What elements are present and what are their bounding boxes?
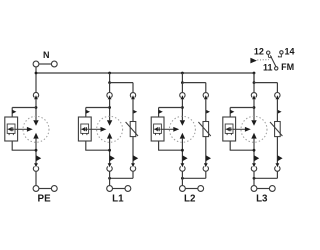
wire L3 plug to spark gap: [253, 99, 255, 120]
junction PE monitor tap: [35, 106, 38, 109]
svg-text:11: 11: [263, 63, 273, 73]
wire L3 varistor branch down: [276, 171, 278, 178]
defeat indicator flag on monitor lead PE: [12, 110, 16, 114]
disconnector symbol inside L2: [154, 127, 161, 135]
wire L1 varistor branch plug to varistor: [132, 99, 134, 122]
plug-in contact (socket+pin) top of L2 arrester branch: [180, 93, 185, 98]
spark gap L2 lower electrode arrow: [180, 133, 185, 139]
wire monitor box L2 bottom to branch: [158, 149, 182, 151]
actuation arrow from box PE to spark gap: [15, 128, 27, 130]
wire arrester branch L1 down to plug: [109, 83, 111, 93]
indicator flag on L1 varistor branch: [133, 110, 137, 114]
terminal PE right: [51, 186, 57, 192]
plug-in contact (pin+socket) bottom of PE arrester branch: [34, 163, 38, 167]
wire monitor box PE bottom to branch: [12, 149, 36, 151]
defeat indicator flag on monitor lead L1: [86, 110, 90, 114]
monitoring element inner box L2: [154, 124, 162, 133]
defeat indicator flag on monitor lead L2: [159, 110, 163, 114]
FM contact mechanical-link flag: [250, 58, 257, 64]
wire N terminal bridge: [39, 63, 52, 65]
FM contact 14 fixed-contact hook: [278, 54, 281, 57]
junction bus / L3 module: [253, 72, 256, 75]
plug-in contact (pin+socket) bottom of L1 arrester branch: [108, 163, 112, 167]
wire PE plug to terminal: [35, 171, 37, 185]
wire L1 plug to spark gap: [109, 99, 111, 120]
wire monitor box L1 bottom lead: [85, 141, 87, 150]
wire L1 to monitor box top: [86, 107, 110, 109]
wire L3 terminal bridge: [257, 188, 270, 190]
varistor L1 diagonal stroke: [126, 122, 138, 136]
FM mechanical coupling dotted line: [257, 59, 269, 61]
wire bus to L2 split: [181, 73, 183, 83]
junction L3 monitor tap: [253, 106, 256, 109]
junction L1 monitor bottom tap: [108, 149, 111, 152]
wire L2 join to terminal: [181, 171, 183, 185]
plug-in contact (pin+socket) bottom of L1 varistor branch: [131, 163, 135, 167]
spark gap L3 lower electrode arrow: [251, 133, 256, 139]
terminal L1 right: [125, 186, 131, 192]
junction bus / L1 module: [108, 72, 111, 75]
terminal N right: [51, 61, 57, 67]
FM contact 12 fixed-contact hook: [268, 55, 271, 58]
wire varistor branch L2 down to plug: [205, 83, 207, 93]
plug-in contact (pin+socket) bottom of L3 arrester branch: [252, 163, 256, 167]
terminal L1 left: [107, 186, 113, 192]
terminal L3 right: [269, 186, 275, 192]
wire L2 terminal bridge: [185, 188, 198, 190]
wire monitor box L1 top lead: [85, 108, 87, 118]
wire L2 plug to spark gap: [181, 99, 183, 120]
wire L3 varistor to bottom plug: [276, 137, 278, 164]
wire L2 spark gap to bottom plug: [181, 139, 183, 164]
wire L3 varistor branch plug to varistor: [276, 99, 278, 122]
actuation arrow from box L2 to spark gap: [161, 128, 173, 130]
wire monitor box L3 bottom lead: [229, 141, 231, 150]
indicator flag bottom of L1 arrester branch: [110, 155, 115, 161]
monitoring element inner box PE: [7, 124, 15, 133]
defeat indicator flag on monitor lead L3: [230, 110, 234, 114]
monitoring element inner box L3: [225, 124, 233, 133]
spark gap L1 lower electrode arrow: [107, 133, 112, 139]
wire L1 varistor branch down: [132, 171, 134, 178]
varistor L3 body: [275, 122, 281, 137]
svg-text:14: 14: [284, 46, 294, 56]
svg-text:FM: FM: [281, 62, 294, 72]
actuation arrow from box L3 to spark gap: [233, 128, 245, 130]
junction PE monitor bottom tap: [35, 149, 38, 152]
wire L2 varistor branch plug to varistor: [205, 99, 207, 122]
wire L1 terminal bridge: [113, 188, 126, 190]
svg-text:12: 12: [254, 46, 264, 56]
plug-in contact (pin+socket) bottom of L2 varistor branch: [204, 163, 208, 167]
svg-text:PE: PE: [38, 193, 52, 204]
wire PE plug to spark gap: [35, 99, 37, 120]
terminal L2 right: [198, 186, 204, 192]
spark gap L3 upper electrode arrow: [251, 120, 256, 126]
wire L3 join to terminal: [253, 171, 255, 185]
wire L2 varistor branch join: [182, 177, 205, 179]
spark gap PE upper electrode arrow: [33, 120, 38, 126]
indicator flag bottom of PE arrester branch: [36, 155, 41, 161]
wire varistor branch L1 down to plug: [132, 83, 134, 93]
wire monitor box L3 bottom to branch: [230, 149, 254, 151]
wire L3 spark gap to bottom plug: [253, 139, 255, 164]
disconnector symbol inside L3: [226, 127, 233, 135]
varistor L3 diagonal stroke: [270, 122, 282, 136]
wire monitor box L2 top lead: [158, 108, 160, 118]
terminal L3 left: [251, 186, 257, 192]
plug-in contact (socket+pin) top of PE arrester branch: [33, 92, 38, 97]
wire PE terminal bridge: [39, 188, 52, 190]
indicator flag bottom of L2 varistor branch: [206, 155, 211, 161]
wire monitor box L1 bottom to branch: [85, 149, 109, 151]
plug-in contact (socket+pin) top of L2 varistor branch: [203, 93, 208, 98]
junction bus / L2 module: [181, 72, 184, 75]
svg-text:N: N: [43, 50, 50, 60]
wire varistor branch L3 down to plug: [276, 83, 278, 93]
indicator flag bottom of L3 varistor branch: [277, 155, 282, 161]
wire N terminal down to module 1 plug: [35, 67, 37, 93]
FM contact 14 terminal circle: [280, 51, 283, 54]
disconnect/monitoring device box L3: [223, 117, 236, 141]
wire bus to L3 split: [253, 73, 255, 83]
indicator flag on L2 varistor branch: [206, 110, 210, 114]
svg-text:L3: L3: [256, 193, 268, 204]
spark gap PE (dashed circle): [23, 116, 49, 142]
wire L1 varistor to bottom plug: [132, 137, 134, 164]
plug-in contact (socket+pin) top of L3 arrester branch: [251, 93, 256, 98]
junction L2 monitor tap: [181, 106, 184, 109]
bus corner wire down to L3 module: [253, 73, 255, 83]
svg-text:L2: L2: [184, 193, 196, 204]
wire L3 varistor branch join: [254, 177, 277, 179]
wire bus to L1 split: [109, 73, 111, 83]
wire L1 spark gap to bottom plug: [109, 139, 111, 164]
FM contact 11 terminal circle: [275, 67, 278, 70]
spark gap L1 (dashed circle): [97, 116, 123, 142]
disconnect/monitoring device box L2: [151, 117, 164, 141]
wire L2 to monitor box top: [159, 107, 183, 109]
indicator flag bottom of L3 arrester branch: [254, 155, 259, 161]
wire monitor box PE bottom lead: [11, 141, 13, 150]
spark gap PE lower electrode arrow: [33, 133, 38, 139]
disconnector symbol inside L1: [81, 127, 88, 135]
spark gap L2 upper electrode arrow: [180, 120, 185, 126]
spark gap L2 (dashed circle): [169, 116, 195, 142]
varistor L1 body: [130, 122, 136, 137]
wire monitor box L3 top lead: [229, 108, 231, 118]
junction L1 branch split: [108, 81, 111, 84]
plug-in contact (pin+socket) bottom of L3 varistor branch: [276, 163, 280, 167]
terminal N left: [33, 61, 39, 67]
FM contact 12 terminal circle: [267, 51, 270, 54]
junction L2 branch split: [181, 81, 184, 84]
terminal PE left: [33, 186, 39, 192]
wire monitor box L2 bottom lead: [158, 141, 160, 150]
disconnect/monitoring device box L1: [78, 117, 91, 141]
plug-in contact (socket+pin) top of L1 arrester branch: [107, 92, 112, 97]
bus wire N: [36, 72, 254, 74]
terminal L2 left: [180, 186, 186, 192]
disconnect/monitoring device box PE: [5, 117, 18, 141]
wire L3 split to varistor branch: [254, 82, 277, 84]
disconnector symbol inside PE: [8, 127, 15, 135]
wire L2 varistor to bottom plug: [205, 137, 207, 164]
varistor L2 body: [203, 122, 209, 137]
junction L3 branches join: [253, 177, 256, 180]
indicator flag bottom of L2 arrester branch: [182, 155, 187, 161]
wire arrester branch L3 down to plug: [253, 83, 255, 93]
junction L1 branches join: [108, 177, 111, 180]
junction L1 monitor tap: [108, 106, 111, 109]
wire PE spark gap to bottom plug: [35, 139, 37, 164]
spark gap L1 upper electrode arrow: [107, 120, 112, 126]
actuation arrow from box L1 to spark gap: [89, 128, 101, 130]
wire monitor box PE top lead: [11, 108, 13, 118]
junction L3 monitor bottom tap: [253, 149, 256, 152]
wire PE to monitor box top: [12, 107, 36, 109]
monitoring element inner box L1: [81, 124, 89, 133]
FM changeover switch lever: [270, 55, 276, 66]
junction L2 monitor bottom tap: [181, 149, 184, 152]
wire arrester branch L2 down to plug: [181, 83, 183, 93]
svg-text:L1: L1: [112, 193, 124, 204]
wire L1 split to varistor branch: [110, 82, 133, 84]
wire L1 varistor branch join: [110, 177, 133, 179]
junction L2 branches join: [181, 177, 184, 180]
wire L3 to monitor box top: [230, 107, 254, 109]
junction N / bus: [35, 72, 38, 75]
wire L2 split to varistor branch: [182, 82, 205, 84]
indicator flag on L3 varistor branch: [277, 110, 281, 114]
spark gap L3 (dashed circle): [241, 116, 267, 142]
varistor L2 diagonal stroke: [198, 122, 210, 136]
plug-in contact (socket+pin) top of L1 varistor branch: [130, 93, 135, 98]
plug-in contact (pin+socket) bottom of L2 arrester branch: [181, 163, 185, 167]
plug-in contact (socket+pin) top of L3 varistor branch: [275, 92, 280, 97]
wire L2 varistor branch down: [205, 171, 207, 178]
indicator flag bottom of L1 varistor branch: [133, 155, 138, 161]
wire L1 join to terminal: [109, 171, 111, 185]
junction L3 branch split: [253, 81, 256, 84]
